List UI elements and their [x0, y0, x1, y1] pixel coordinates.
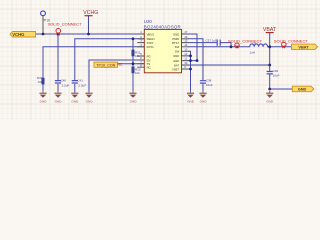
svg-text:SW: SW: [175, 45, 180, 49]
svg-text:NC: NC: [117, 62, 123, 66]
svg-text:14: 14: [184, 43, 188, 47]
svg-text:C41: C41: [77, 79, 83, 83]
svg-text:EN: EN: [147, 58, 151, 62]
svg-text:GND: GND: [40, 100, 48, 104]
svg-text:GND: GND: [173, 59, 179, 63]
svg-text:C39: C39: [273, 69, 279, 73]
svg-text:VBUS: VBUS: [147, 32, 155, 36]
svg-text:VCHG: VCHG: [12, 32, 24, 37]
svg-text:10k: 10k: [135, 54, 140, 58]
svg-text:ICHG: ICHG: [147, 45, 154, 49]
svg-text:10uF: 10uF: [273, 74, 280, 78]
svg-text:GND: GND: [71, 100, 79, 104]
svg-text:NC: NC: [147, 66, 151, 70]
svg-text:GND: GND: [86, 100, 94, 104]
svg-text:C38: C38: [206, 78, 212, 82]
svg-text:SW: SW: [175, 50, 180, 54]
svg-text:BTST: BTST: [172, 41, 179, 45]
svg-text:REGN: REGN: [147, 37, 155, 41]
svg-text:12: 12: [184, 52, 188, 56]
svg-text:TS: TS: [147, 62, 151, 66]
svg-text:1uH: 1uH: [250, 51, 256, 55]
svg-text:BQ24040ADSQR: BQ24040ADSQR: [144, 24, 181, 29]
svg-text:GND: GND: [55, 100, 63, 104]
svg-text:GND: GND: [298, 87, 307, 92]
svg-text:GND: GND: [130, 100, 138, 104]
svg-text:GND: GND: [173, 32, 179, 36]
svg-text:17: 17: [184, 30, 188, 34]
svg-text:10k: 10k: [135, 71, 140, 75]
svg-text:2.2uF: 2.2uF: [78, 83, 86, 87]
svg-text:2.2uF: 2.2uF: [62, 83, 70, 87]
svg-text:VBAT: VBAT: [298, 44, 309, 49]
svg-text:BAT: BAT: [174, 63, 179, 67]
svg-text:C40: C40: [61, 79, 67, 83]
svg-text:SOLID_CONNECT: SOLID_CONNECT: [274, 39, 309, 44]
svg-text:C37 1uF: C37 1uF: [206, 38, 218, 42]
svg-text:GND: GND: [173, 54, 179, 58]
svg-text:TP10_CON: TP10_CON: [96, 63, 115, 67]
svg-text:PMID: PMID: [172, 37, 179, 41]
svg-text:SOLID_CONNECT: SOLID_CONNECT: [228, 39, 263, 44]
svg-text:GND: GND: [200, 100, 208, 104]
svg-text:13: 13: [184, 47, 188, 51]
svg-text:10uF: 10uF: [206, 83, 213, 87]
svg-text:11: 11: [184, 57, 187, 61]
svg-text:10k: 10k: [38, 80, 43, 84]
svg-text:STAT: STAT: [147, 41, 154, 45]
svg-text:GND: GND: [187, 100, 195, 104]
svg-text:VSET: VSET: [172, 67, 180, 71]
svg-text:GND: GND: [266, 100, 274, 104]
svg-text:PG: PG: [147, 54, 151, 58]
svg-text:SOLID_CONNECT: SOLID_CONNECT: [48, 22, 83, 27]
